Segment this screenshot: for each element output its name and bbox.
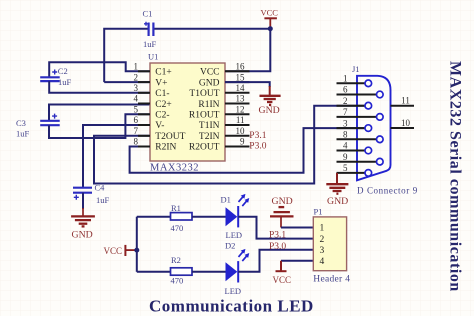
svg-text:V+: V+ [155,78,167,88]
svg-text:C1+: C1+ [155,68,171,78]
svg-text:R2: R2 [171,255,181,265]
svg-text:LED: LED [226,230,243,240]
svg-text:T1OUT: T1OUT [189,89,219,99]
power VCC at P1 [273,271,292,285]
svg-text:V-: V- [155,121,164,131]
D pin 1 [337,74,372,87]
svg-text:6: 6 [134,115,139,125]
svg-text:D2: D2 [225,241,235,251]
svg-text:11: 11 [236,115,245,125]
svg-text:13: 13 [236,94,246,104]
ground below C4 [71,208,95,240]
svg-text:P3.1: P3.1 [269,231,286,241]
pin 15 GND [199,72,250,88]
pin 9 R2OUT [189,137,250,153]
svg-text:8: 8 [343,130,348,140]
svg-text:4: 4 [343,141,348,151]
wire VCC to pin16 [225,29,270,72]
D pin 7 [337,107,384,120]
pin 4 C2+ [134,94,172,110]
svg-text:Header 4: Header 4 [313,275,350,285]
svg-text:1: 1 [134,62,139,72]
pin 7 T2OUT [134,126,186,142]
svg-text:VCC: VCC [200,68,220,78]
pin 13 R1IN [198,94,249,110]
svg-text:4: 4 [320,257,325,267]
resistor R2 [171,255,193,285]
svg-text:3: 3 [320,246,325,256]
wire to R1 [137,216,171,218]
svg-text:15: 15 [236,72,246,82]
D pin 4 [337,141,372,154]
wire D2 to P3.0 [238,250,313,272]
svg-text:1uF: 1uF [96,195,110,205]
svg-text:C2-: C2- [155,111,169,121]
svg-text:P1: P1 [314,207,323,217]
D pin 10 [391,118,415,128]
op-amp U1 MAX3232 body [148,52,225,174]
svg-text:U1: U1 [148,52,158,62]
pin 6 V- [134,115,165,131]
svg-text:1uF: 1uF [58,77,72,87]
ground above P1 [270,196,294,228]
svg-text:8: 8 [134,137,139,147]
svg-text:3: 3 [343,118,348,128]
pin 12 R1OUT [189,105,250,121]
power VCC top [261,8,279,29]
wire pin6 to C4 [83,125,150,188]
svg-text:4: 4 [134,94,139,104]
svg-text:2: 2 [343,96,348,106]
capacitor C4 [73,182,110,205]
wire D1 to P3.1 [238,217,313,239]
svg-text:P3.1: P3.1 [249,131,266,141]
pin 14 T1OUT [189,83,249,99]
LED D2 [225,241,249,297]
svg-text:C2+: C2+ [155,100,171,110]
svg-text:C1-: C1- [155,89,169,99]
D pin 8 [337,130,384,143]
wire gnd to P1 pin1 [281,227,313,229]
D pin 6 [337,85,384,98]
svg-text:MAX232 Serial communication: MAX232 Serial communication [447,61,464,292]
svg-text:2: 2 [134,72,139,82]
svg-text:9: 9 [343,152,348,162]
svg-text:J1: J1 [352,64,360,74]
svg-text:D Connector 9: D Connector 9 [357,186,418,196]
svg-text:LED: LED [225,286,242,296]
power VCC led tree [104,245,137,256]
svg-text:Communication LED: Communication LED [149,297,314,316]
ground at pin15 [259,96,281,116]
svg-text:T2IN: T2IN [199,132,220,142]
svg-text:R2IN: R2IN [155,143,176,153]
pin 16 VCC [200,62,250,78]
pin 10 T2IN [199,126,250,142]
capacitor C1 [143,9,157,50]
svg-text:1uF: 1uF [143,39,157,49]
svg-text:16: 16 [236,62,246,72]
pin 11 T1IN [199,115,250,131]
svg-text:11: 11 [401,96,410,106]
wire C4 bottom to ground [82,193,84,209]
pin 3 C1- [134,83,170,99]
svg-text:6: 6 [343,85,348,95]
wire C3 top to pin4 [49,105,150,121]
svg-text:470: 470 [171,223,184,233]
svg-text:1: 1 [320,224,325,234]
svg-text:GND: GND [259,105,280,116]
svg-text:VCC: VCC [273,275,292,285]
ground at D connector [326,184,348,207]
wire pin7 T2OUT to DB9 pin2 [94,106,365,184]
svg-text:10: 10 [236,126,246,136]
wire to R2 [137,271,171,273]
pin 2 V+ [134,72,168,88]
svg-text:12: 12 [236,105,245,115]
svg-text:GND: GND [199,78,220,88]
wire C2 bottom to pin3 [49,81,150,93]
svg-text:C2: C2 [58,66,68,76]
D pin 9 [337,152,384,165]
junction led tree [134,248,139,253]
resistor R1 [171,203,193,233]
svg-text:9: 9 [240,137,245,147]
wire vcc tree vertical [136,217,138,272]
svg-text:GND: GND [272,196,293,207]
wire P1 pin4 to VCC [281,260,313,262]
pin 5 C2- [134,105,170,121]
LED D1 [221,194,249,240]
capacitor C2 [40,66,71,87]
svg-text:2: 2 [320,235,325,245]
svg-text:MAX3232: MAX3232 [150,163,199,174]
wire C3 bottom to pin5 [49,114,150,138]
wire R1 to D1 [192,216,226,218]
svg-text:R2OUT: R2OUT [189,143,220,153]
wire pin8 R2IN to DB9 pin3 [130,128,365,173]
svg-text:T2OUT: T2OUT [155,132,185,142]
svg-text:D1: D1 [221,194,231,204]
svg-text:470: 470 [171,275,184,285]
svg-text:7: 7 [134,126,139,136]
pin 1 C1+ [134,62,172,78]
svg-text:C1: C1 [143,9,153,19]
connector J1 D-shell body [352,64,418,196]
svg-text:R1: R1 [171,203,181,213]
svg-text:VCC: VCC [104,246,123,256]
wire C1 right to VCC junction [155,28,271,30]
svg-text:1: 1 [343,74,348,84]
svg-text:GND: GND [72,229,93,240]
svg-text:14: 14 [236,83,246,93]
capacitor C3 [16,114,60,139]
connector P1 Header 4 [313,207,350,285]
pin 8 R2IN [134,137,177,153]
svg-text:C3: C3 [16,118,26,128]
D pin 3 [337,118,372,131]
svg-text:R1OUT: R1OUT [189,111,220,121]
svg-text:P3.0: P3.0 [249,141,266,151]
svg-text:7: 7 [343,107,348,117]
svg-text:R1IN: R1IN [198,100,219,110]
D pin 11 [391,96,415,106]
svg-text:10: 10 [401,118,411,128]
svg-text:GND: GND [327,196,348,207]
D pin 5 [337,163,372,176]
svg-text:1uF: 1uF [16,129,30,139]
junction VCC node [268,26,273,31]
wire R2 to D2 [192,271,226,273]
svg-text:T1IN: T1IN [199,121,220,131]
wire D pin5 to ground [336,173,338,184]
wire V+ to pin2 [104,81,150,83]
wire C1 left to V+ vertical [104,29,148,82]
svg-text:3: 3 [134,83,139,93]
D pin 2 [337,96,372,109]
wire C2 top to pin1 [49,62,150,76]
svg-text:P3.0: P3.0 [269,242,286,252]
svg-text:5: 5 [134,105,139,115]
wire pin15 to ground [225,82,270,87]
svg-text:5: 5 [343,163,348,173]
svg-text:VCC: VCC [261,8,279,18]
